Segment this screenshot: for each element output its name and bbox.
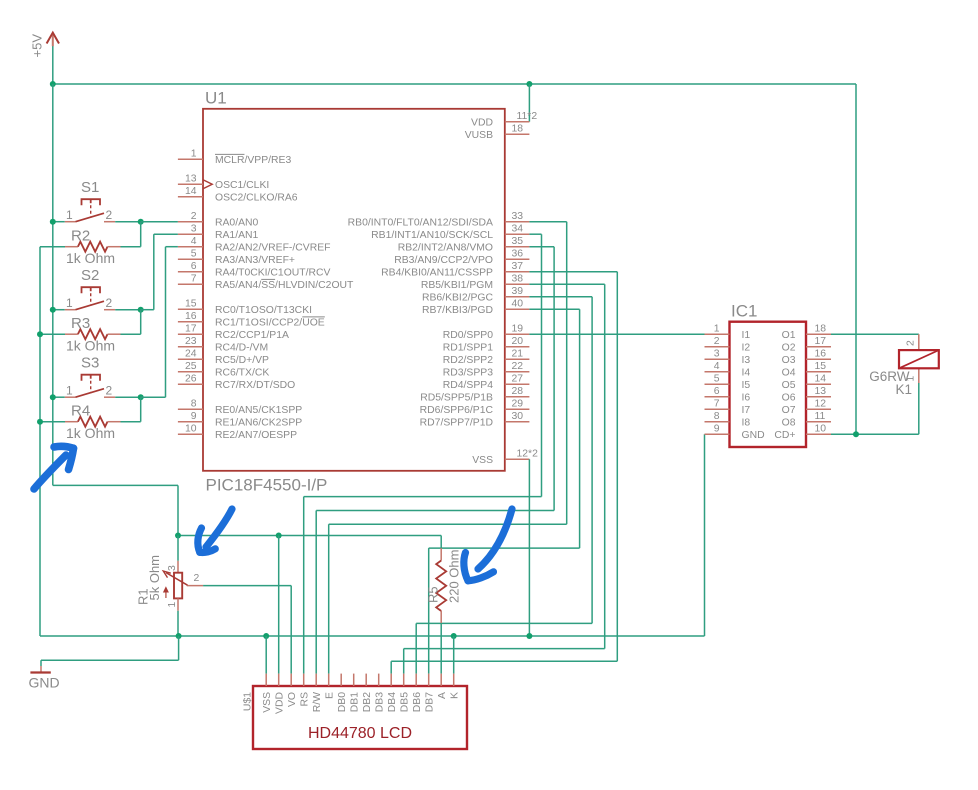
- IC1 pin 6 I6: [705, 386, 751, 404]
- svg-text:10: 10: [815, 424, 827, 435]
- svg-text:2: 2: [106, 296, 113, 310]
- wire VDD drop: [528, 84, 530, 122]
- IC1 pin 12 O7: [782, 399, 831, 417]
- svg-text:38: 38: [512, 274, 524, 285]
- svg-text:RB2/INT2/AN8/VMO: RB2/INT2/AN8/VMO: [398, 243, 493, 254]
- wire GND row: [40, 635, 705, 637]
- U1 pin 36 RB3/AN9/CCP2/VPO: [394, 249, 529, 267]
- IC1 pin 2 I2: [705, 336, 751, 354]
- svg-text:22: 22: [512, 361, 524, 372]
- LCD pin DB2: [362, 674, 373, 713]
- svg-text:4: 4: [191, 236, 197, 247]
- IC1 pin 1 I1: [705, 324, 751, 342]
- junction dot GND row / U1 VSS: [526, 633, 532, 639]
- svg-text:VSS: VSS: [472, 455, 493, 466]
- svg-text:+5V: +5V: [30, 34, 45, 58]
- svg-text:VO: VO: [287, 692, 298, 707]
- svg-text:R/W: R/W: [312, 692, 323, 712]
- svg-text:24: 24: [185, 349, 197, 360]
- wire RB4 pin37 to LCD DB4: [391, 272, 617, 674]
- LCD pin VSS: [262, 674, 273, 713]
- U1 pin 23 RC4/D-/VM: [178, 336, 268, 354]
- U1 pin 28 RD5/SPP5/P1B: [420, 386, 529, 404]
- svg-text:RB1/INT1/AN10/SCK/SCL: RB1/INT1/AN10/SCK/SCL: [371, 230, 493, 241]
- svg-text:1: 1: [66, 208, 73, 222]
- wire IC1 CD+ to relay: [831, 433, 919, 435]
- IC1 body: [730, 322, 807, 447]
- svg-text:K1: K1: [895, 382, 912, 397]
- svg-text:DB0: DB0: [337, 692, 348, 712]
- svg-text:30: 30: [512, 411, 524, 422]
- wire S1 output to R2: [140, 222, 142, 247]
- wire RB7 pin40 to LCD DB7: [429, 309, 580, 673]
- svg-text:RB0/INT0/FLT0/AN12/SDI/SDA: RB0/INT0/FLT0/AN12/SDI/SDA: [348, 218, 493, 229]
- svg-text:14: 14: [185, 186, 197, 197]
- svg-text:E: E: [325, 692, 336, 699]
- svg-text:34: 34: [512, 224, 524, 235]
- svg-text:11: 11: [815, 411, 826, 422]
- LCD pin VDD: [275, 674, 286, 714]
- wire LCD K drop: [453, 636, 455, 674]
- svg-text:RB7/KBI3/PGD: RB7/KBI3/PGD: [422, 305, 493, 316]
- svg-text:RC7/RX/DT/SDO: RC7/RX/DT/SDO: [215, 380, 295, 391]
- wire +5V right drop to relay net: [855, 84, 857, 434]
- svg-text:K: K: [450, 692, 461, 699]
- svg-text:2: 2: [106, 208, 113, 222]
- svg-text:S2: S2: [81, 267, 99, 284]
- svg-text:5: 5: [714, 374, 720, 385]
- svg-text:2: 2: [191, 211, 197, 222]
- svg-text:GND: GND: [742, 430, 765, 441]
- svg-text:18: 18: [815, 324, 827, 335]
- svg-text:8: 8: [714, 411, 720, 422]
- U1 pin 10 RE2/AN7/OESPP: [178, 424, 297, 442]
- svg-text:RA2/AN2/VREF-/CVREF: RA2/AN2/VREF-/CVREF: [215, 243, 330, 254]
- wire RB5 pin38 to LCD DB5: [404, 284, 605, 673]
- svg-text:I7: I7: [742, 405, 751, 416]
- wire +5V row to R5: [178, 535, 441, 537]
- U1 pin 24 RC5/D+/VP: [178, 349, 269, 367]
- IC1 pin 8 I8: [705, 411, 751, 429]
- svg-text:O2: O2: [782, 343, 796, 354]
- svg-text:DB7: DB7: [425, 692, 436, 712]
- svg-text:RE2/AN7/OESPP: RE2/AN7/OESPP: [215, 430, 297, 441]
- svg-text:15: 15: [815, 361, 827, 372]
- svg-text:DB4: DB4: [387, 692, 398, 712]
- U1 pin 18 VUSB: [465, 124, 530, 142]
- junction dot S3 pin1: [50, 394, 56, 400]
- junction dot R3 on GND vertical: [37, 331, 43, 337]
- IC1 pin 17 O2: [782, 336, 831, 354]
- U1 pin 38 RB5/KBI1/PGM: [421, 274, 530, 292]
- U1 pin 30 RD7/SPP7/P1D: [420, 411, 530, 429]
- IC1 pin 14 O5: [782, 374, 831, 392]
- svg-text:VUSB: VUSB: [465, 130, 493, 141]
- svg-text:1: 1: [66, 296, 73, 310]
- resistor R5 220 Ohm: [426, 548, 462, 674]
- wire relay bottom lead: [918, 383, 920, 434]
- svg-text:RC4/D-/VM: RC4/D-/VM: [215, 343, 268, 354]
- LCD pin A: [437, 674, 448, 699]
- LCD pin VO: [287, 674, 298, 707]
- svg-text:VDD: VDD: [471, 118, 493, 129]
- LCD pin DB1: [350, 674, 361, 713]
- svg-text:1: 1: [191, 149, 197, 160]
- svg-text:39: 39: [512, 286, 524, 297]
- svg-text:DB6: DB6: [412, 692, 423, 712]
- U1 pin 22 RD3/SPP3: [443, 361, 530, 379]
- svg-text:6: 6: [191, 261, 197, 272]
- svg-text:13: 13: [815, 386, 827, 397]
- svg-text:RS: RS: [300, 692, 311, 707]
- svg-text:R5: R5: [426, 586, 441, 603]
- IC1 pin 9 GND: [705, 424, 765, 442]
- IC1 pin 5 I5: [705, 374, 751, 392]
- svg-text:I1: I1: [742, 330, 751, 341]
- svg-text:O7: O7: [782, 405, 796, 416]
- resistor R3 1k Ohm: [40, 315, 141, 354]
- svg-text:O3: O3: [782, 355, 796, 366]
- switch S3: [53, 355, 141, 398]
- svg-text:12*2: 12*2: [517, 449, 539, 460]
- wire IC1 GND drop: [704, 434, 706, 636]
- LCD pin DB4: [387, 674, 398, 713]
- svg-text:I6: I6: [742, 393, 751, 404]
- svg-text:16: 16: [185, 311, 197, 322]
- resistor R4 1k Ohm: [40, 403, 141, 442]
- relay coil K1 G6RW: [869, 334, 939, 397]
- svg-text:PIC18F4550-I/P: PIC18F4550-I/P: [206, 476, 328, 495]
- svg-text:5k Ohm: 5k Ohm: [147, 555, 162, 601]
- LCD pin DB7: [425, 674, 436, 713]
- blue arrow annotation lower-left: [34, 446, 74, 489]
- U1 pin 15 RC0/T1OSO/T13CKI: [178, 299, 312, 317]
- svg-text:HD44780 LCD: HD44780 LCD: [308, 725, 412, 742]
- U1 pin 13 OSC1/CLKI: [178, 174, 269, 192]
- blue arrow annotation middle: [198, 509, 232, 552]
- IC1 pin 11 O8: [782, 411, 831, 429]
- svg-text:7: 7: [191, 274, 197, 285]
- svg-text:R3: R3: [71, 315, 90, 332]
- svg-text:27: 27: [512, 374, 524, 385]
- svg-text:1: 1: [167, 602, 178, 608]
- svg-text:2: 2: [906, 340, 917, 346]
- svg-text:6: 6: [714, 386, 720, 397]
- U1 pin 2 RA0/AN0: [178, 211, 259, 229]
- svg-text:RC5/D+/VP: RC5/D+/VP: [215, 355, 269, 366]
- svg-text:17: 17: [815, 336, 827, 347]
- U1 pin 8 RE0/AN5/CK1SPP: [178, 399, 302, 417]
- U1 pin 11*2 VDD: [471, 111, 537, 129]
- svg-text:RB3/AN9/CCP2/VPO: RB3/AN9/CCP2/VPO: [394, 255, 493, 266]
- svg-text:DB2: DB2: [362, 692, 373, 712]
- svg-text:R4: R4: [71, 403, 90, 420]
- IC1 pin 4 I4: [705, 361, 751, 379]
- ground symbol: [29, 666, 60, 691]
- svg-text:DB3: DB3: [375, 692, 386, 712]
- svg-text:28: 28: [512, 386, 524, 397]
- svg-text:O6: O6: [782, 393, 796, 404]
- junction dot +5V row / pot top: [175, 533, 181, 539]
- U1 pin 3 RA1/AN1: [178, 224, 259, 242]
- svg-text:21: 21: [512, 349, 524, 360]
- svg-text:I5: I5: [742, 380, 751, 391]
- svg-text:1: 1: [714, 324, 720, 335]
- svg-text:12: 12: [815, 399, 827, 410]
- svg-text:OSC2/CLKO/RA6: OSC2/CLKO/RA6: [215, 193, 298, 204]
- wire RB1 pin34 to LCD RS: [304, 234, 542, 673]
- svg-text:RA4/T0CKI/C1OUT/RCV: RA4/T0CKI/C1OUT/RCV: [215, 268, 331, 279]
- svg-text:RD5/SPP5/P1B: RD5/SPP5/P1B: [420, 393, 493, 404]
- junction dot S1 output: [138, 219, 144, 225]
- svg-text:1: 1: [66, 384, 73, 398]
- wire +5V top rail: [53, 83, 856, 85]
- svg-text:11*2: 11*2: [517, 111, 538, 122]
- svg-text:CD+: CD+: [774, 430, 795, 441]
- LCD pin DB3: [375, 674, 386, 713]
- IC1 pin 18 O1: [782, 324, 831, 342]
- U1 pin 19 RD0/SPP0: [443, 324, 530, 342]
- svg-text:2: 2: [106, 384, 113, 398]
- wire LCD VSS drop: [265, 636, 267, 674]
- U1 pin 34 RB1/INT1/AN10/SCK/SCL: [371, 224, 529, 242]
- svg-text:IC1: IC1: [731, 302, 757, 321]
- svg-text:RD1/SPP1: RD1/SPP1: [443, 343, 493, 354]
- svg-text:4: 4: [714, 361, 720, 372]
- LCD pin DB5: [400, 674, 411, 713]
- svg-text:37: 37: [512, 261, 524, 272]
- svg-text:3: 3: [191, 224, 197, 235]
- svg-text:3: 3: [167, 565, 178, 571]
- svg-text:RB4/KBI0/AN11/CSSPP: RB4/KBI0/AN11/CSSPP: [381, 268, 493, 279]
- junction dot S2 output: [138, 307, 144, 313]
- LCD pin DB0: [337, 674, 348, 713]
- U1 pin 7 RA5/AN4/SS/HLVDIN/C2OUT: [178, 274, 354, 292]
- U1 pin 12*2 VSS: [472, 449, 538, 467]
- svg-text:O4: O4: [782, 368, 796, 379]
- svg-text:10: 10: [185, 424, 197, 435]
- svg-text:RE0/AN5/CK1SPP: RE0/AN5/CK1SPP: [215, 405, 302, 416]
- svg-text:RD4/SPP4: RD4/SPP4: [443, 380, 493, 391]
- LCD pin RS: [300, 674, 311, 707]
- svg-text:RD0/SPP0: RD0/SPP0: [443, 330, 493, 341]
- junction dot S2 pin1: [50, 307, 56, 313]
- svg-text:RA0/AN0: RA0/AN0: [215, 218, 259, 229]
- wire RB2 pin35 to LCD R/W: [316, 247, 554, 674]
- junction dot GND row / LCD K: [451, 633, 457, 639]
- svg-text:RD6/SPP6/P1C: RD6/SPP6/P1C: [420, 405, 494, 416]
- U1 pin 39 RB6/KBI2/PGC: [422, 286, 529, 304]
- svg-text:220 Ohm: 220 Ohm: [447, 550, 462, 603]
- LCD pin R/W: [312, 674, 323, 713]
- svg-text:1k Ohm: 1k Ohm: [66, 250, 115, 266]
- svg-text:RA5/AN4/SS/HLVDIN/C2OUT: RA5/AN4/SS/HLVDIN/C2OUT: [215, 280, 354, 291]
- svg-text:1k Ohm: 1k Ohm: [66, 425, 115, 441]
- svg-text:26: 26: [185, 374, 197, 385]
- svg-text:17: 17: [185, 324, 197, 335]
- svg-text:A: A: [437, 692, 448, 699]
- U1 pin 25 RC6/TX/CK: [178, 361, 269, 379]
- svg-text:RB5/KBI1/PGM: RB5/KBI1/PGM: [421, 280, 493, 291]
- wire +5V left vertical: [52, 84, 54, 485]
- junction dot top rail / +5V: [50, 81, 56, 87]
- svg-text:25: 25: [185, 361, 197, 372]
- svg-text:35: 35: [512, 236, 524, 247]
- U1 pin 21 RD2/SPP2: [443, 349, 530, 367]
- wire GND left vertical: [39, 247, 41, 636]
- svg-text:RC1/T1OSI/CCP2/UOE: RC1/T1OSI/CCP2/UOE: [215, 318, 325, 329]
- switch S1: [53, 179, 141, 222]
- svg-text:RE1/AN6/CK2SPP: RE1/AN6/CK2SPP: [215, 418, 302, 429]
- svg-text:5: 5: [191, 249, 197, 260]
- junction dot R4 on GND vertical: [37, 419, 43, 425]
- svg-text:40: 40: [512, 299, 524, 310]
- junction dot relay net / +5V drop: [853, 431, 859, 437]
- svg-text:I8: I8: [742, 418, 751, 429]
- svg-text:29: 29: [512, 399, 524, 410]
- svg-text:RC2/CCP1/P1A: RC2/CCP1/P1A: [215, 330, 289, 341]
- U1 pin 4 RA2/AN2/VREF-/CVREF: [178, 236, 331, 254]
- LCD pin DB6: [412, 674, 423, 713]
- junction dot +5V row / LCD VDD: [276, 533, 282, 539]
- svg-text:13: 13: [185, 174, 197, 185]
- IC1 pin 7 I7: [705, 399, 751, 417]
- U1 pin 33 RB0/INT0/FLT0/AN12/SDI/SDA: [348, 211, 530, 229]
- svg-text:14: 14: [815, 374, 827, 385]
- U1 pin 27 RD4/SPP4: [443, 374, 530, 392]
- svg-text:16: 16: [815, 349, 827, 360]
- svg-text:19: 19: [512, 324, 524, 335]
- LCD pin E: [325, 674, 336, 699]
- U1 pin 17 RC2/CCP1/P1A: [178, 324, 289, 342]
- svg-text:1k Ohm: 1k Ohm: [66, 338, 115, 354]
- svg-text:OSC1/CLKI: OSC1/CLKI: [215, 180, 269, 191]
- svg-text:23: 23: [185, 336, 197, 347]
- U1 pin 20 RD1/SPP1: [443, 336, 530, 354]
- U1 pin 1 MCLR/VPP/RE3: [178, 149, 292, 167]
- wire S3 node riser to U1 pin4: [141, 396, 166, 398]
- svg-text:8: 8: [191, 399, 197, 410]
- svg-text:RD2/SPP2: RD2/SPP2: [443, 355, 493, 366]
- junction dot GND row / LCD VSS: [263, 633, 269, 639]
- U1 pin 14 OSC2/CLKO/RA6: [178, 186, 298, 204]
- svg-text:15: 15: [185, 299, 197, 310]
- svg-text:I4: I4: [742, 368, 751, 379]
- svg-text:VSS: VSS: [262, 692, 273, 713]
- svg-text:RB6/KBI2/PGC: RB6/KBI2/PGC: [422, 293, 494, 304]
- IC1 pin 3 I3: [705, 349, 751, 367]
- svg-text:RC6/TX/CK: RC6/TX/CK: [215, 368, 269, 379]
- U1 pin 9 RE1/AN6/CK2SPP: [178, 411, 302, 429]
- IC1 pin 10 CD+: [774, 424, 831, 442]
- svg-text:DB1: DB1: [350, 692, 361, 712]
- svg-text:O8: O8: [782, 418, 796, 429]
- junction dot S1 pin1: [50, 219, 56, 225]
- junction dot S3 output: [138, 394, 144, 400]
- wire S2 output to R3: [140, 310, 142, 335]
- svg-text:I3: I3: [742, 355, 751, 366]
- svg-text:RA3/AN3/VREF+: RA3/AN3/VREF+: [215, 255, 295, 266]
- resistor R2 1k Ohm: [40, 228, 141, 267]
- svg-text:RA1/AN1: RA1/AN1: [215, 230, 259, 241]
- svg-text:O5: O5: [782, 380, 796, 391]
- wire IC1 O1 to relay coil: [831, 333, 919, 335]
- IC1 pin 13 O6: [782, 386, 831, 404]
- svg-text:S3: S3: [81, 355, 99, 372]
- potentiometer R1 5k Ohm: [136, 536, 204, 637]
- svg-text:U1: U1: [205, 89, 227, 108]
- wire S2 node riser to U1 pin3: [141, 309, 154, 311]
- supply +5V symbol: [30, 33, 60, 84]
- wire RB0 pin33 to LCD E: [329, 222, 567, 674]
- wire pot wiper to LCD VO: [203, 585, 291, 587]
- svg-text:S1: S1: [81, 179, 99, 196]
- svg-text:18: 18: [512, 124, 524, 135]
- LCD connector U$1 HD44780 body: [253, 686, 467, 749]
- svg-text:33: 33: [512, 211, 524, 222]
- wire LCD VDD drop: [278, 536, 280, 674]
- U1 pin 40 RB7/KBI3/PGD: [422, 299, 529, 317]
- U1 pin 5 RA3/AN3/VREF+: [178, 249, 295, 267]
- svg-text:R2: R2: [71, 228, 90, 245]
- IC1 pin 16 O3: [782, 349, 831, 367]
- svg-text:GND: GND: [29, 675, 60, 691]
- U1 pin 16 RC1/T1OSI/CCP2/UOE: [178, 311, 325, 329]
- wire RB6 pin39 to LCD DB6: [416, 297, 592, 674]
- svg-text:2: 2: [714, 336, 720, 347]
- wire S1 node to U1 pin2: [141, 221, 178, 223]
- svg-text:RD7/SPP7/P1D: RD7/SPP7/P1D: [420, 418, 493, 429]
- svg-text:RD3/SPP3: RD3/SPP3: [443, 368, 493, 379]
- U1 PIC18F4550 body: [203, 109, 505, 471]
- wire S3 output to R4: [140, 397, 142, 422]
- U1 pin 29 RD6/SPP6/P1C: [420, 399, 530, 417]
- svg-text:VDD: VDD: [275, 692, 286, 714]
- svg-text:36: 36: [512, 249, 524, 260]
- svg-text:20: 20: [512, 336, 524, 347]
- svg-text:7: 7: [714, 399, 720, 410]
- blue arrow annotation right: [464, 509, 512, 581]
- wire +5V to potentiometer (horiz y=485): [53, 484, 178, 486]
- svg-text:U$1: U$1: [243, 692, 254, 711]
- svg-text:MCLR/VPP/RE3: MCLR/VPP/RE3: [215, 155, 291, 166]
- switch S2: [53, 267, 141, 310]
- IC1 pin 15 O4: [782, 361, 831, 379]
- svg-text:9: 9: [714, 424, 720, 435]
- wire RD0 pin19 to IC1 pin1: [529, 333, 704, 335]
- svg-text:I2: I2: [742, 343, 751, 354]
- U1 pin 37 RB4/KBI0/AN11/CSSPP: [381, 261, 529, 279]
- U1 pin 6 RA4/T0CKI/C1OUT/RCV: [178, 261, 331, 279]
- wire U1 VSS to GND row: [528, 459, 530, 636]
- svg-text:DB5: DB5: [400, 692, 411, 712]
- U1 pin 26 RC7/RX/DT/SDO: [178, 374, 295, 392]
- junction dot top rail / VDD drop: [526, 81, 532, 87]
- U1 pin 35 RB2/INT2/AN8/VMO: [398, 236, 530, 254]
- junction dot GND row / pot bottom: [176, 633, 182, 639]
- svg-text:9: 9: [191, 411, 197, 422]
- svg-text:3: 3: [714, 349, 720, 360]
- svg-text:2: 2: [194, 573, 200, 584]
- svg-text:O1: O1: [782, 330, 796, 341]
- svg-text:RC0/T1OSO/T13CKI: RC0/T1OSO/T13CKI: [215, 305, 312, 316]
- wire GND detour to symbol: [178, 636, 180, 660]
- LCD pin K: [450, 674, 461, 699]
